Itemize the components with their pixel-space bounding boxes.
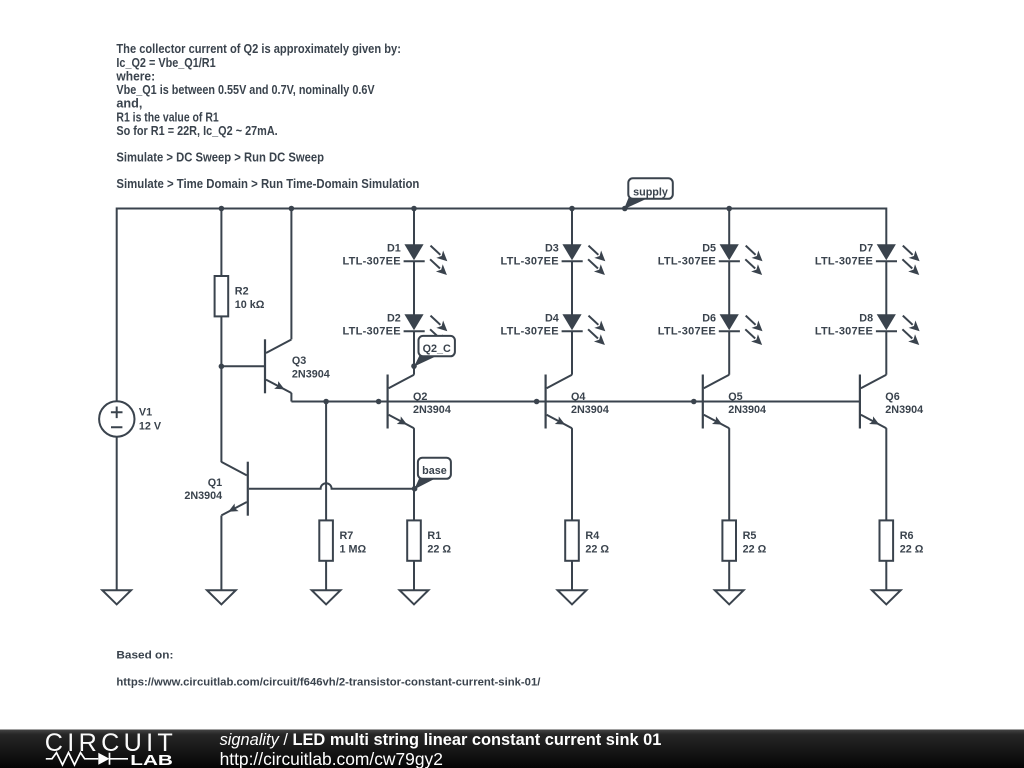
- svg-text:Based on:: Based on:: [116, 649, 173, 661]
- svg-text:2N3904: 2N3904: [413, 404, 451, 416]
- svg-text:D7: D7: [859, 243, 873, 255]
- svg-text:2N3904: 2N3904: [184, 490, 222, 502]
- svg-text:R5: R5: [743, 530, 757, 542]
- svg-text:22 Ω: 22 Ω: [427, 544, 451, 556]
- svg-text:2N3904: 2N3904: [571, 404, 609, 416]
- svg-text:22 Ω: 22 Ω: [585, 544, 609, 556]
- svg-text:D4: D4: [545, 313, 559, 325]
- svg-text:http://circuitlab.com/cw79gy2: http://circuitlab.com/cw79gy2: [220, 749, 443, 768]
- svg-text:LTL-307EE: LTL-307EE: [658, 256, 716, 268]
- svg-text:signality / LED multi string l: signality / LED multi string linear cons…: [220, 731, 662, 749]
- svg-text:Q2_C: Q2_C: [423, 343, 451, 355]
- svg-text:R6: R6: [900, 530, 914, 542]
- svg-text:base: base: [422, 465, 447, 477]
- svg-text:LTL-307EE: LTL-307EE: [343, 256, 401, 268]
- svg-text:Simulate > Time Domain > Run T: Simulate > Time Domain > Run Time-Domain…: [116, 176, 419, 191]
- svg-text:22 Ω: 22 Ω: [900, 544, 924, 556]
- svg-text:V1: V1: [139, 407, 152, 419]
- svg-text:2N3904: 2N3904: [292, 369, 330, 381]
- svg-text:Q5: Q5: [728, 391, 742, 403]
- svg-text:D1: D1: [387, 243, 401, 255]
- svg-text:LTL-307EE: LTL-307EE: [658, 326, 716, 338]
- svg-text:Vbe_Q1 is between 0.55V and 0.: Vbe_Q1 is between 0.55V and 0.7V, nomina…: [116, 82, 374, 97]
- svg-text:LTL-307EE: LTL-307EE: [815, 326, 873, 338]
- svg-text:Q1: Q1: [208, 477, 222, 489]
- svg-text:2N3904: 2N3904: [728, 404, 766, 416]
- svg-text:Q2: Q2: [413, 391, 427, 403]
- svg-text:https://www.circuitlab.com/cir: https://www.circuitlab.com/circuit/f646v…: [116, 676, 540, 688]
- svg-text:D6: D6: [702, 313, 716, 325]
- svg-text:R2: R2: [235, 286, 249, 298]
- svg-text:LTL-307EE: LTL-307EE: [815, 256, 873, 268]
- svg-text:Q6: Q6: [885, 391, 899, 403]
- svg-text:D2: D2: [387, 313, 401, 325]
- svg-text:So for R1 = 22R, Ic_Q2 ~ 27mA.: So for R1 = 22R, Ic_Q2 ~ 27mA.: [116, 123, 277, 138]
- svg-text:10 kΩ: 10 kΩ: [235, 299, 265, 311]
- svg-text:2N3904: 2N3904: [885, 404, 923, 416]
- svg-text:LTL-307EE: LTL-307EE: [501, 326, 559, 338]
- svg-text:LAB: LAB: [130, 752, 173, 768]
- svg-text:Q3: Q3: [292, 355, 306, 367]
- svg-text:12 V: 12 V: [139, 420, 162, 432]
- svg-text:LTL-307EE: LTL-307EE: [501, 256, 559, 268]
- svg-text:D3: D3: [545, 243, 559, 255]
- svg-text:Simulate > DC Sweep > Run DC S: Simulate > DC Sweep > Run DC Sweep: [116, 149, 324, 164]
- svg-text:supply: supply: [633, 186, 668, 198]
- svg-text:R7: R7: [340, 530, 354, 542]
- svg-text:D5: D5: [702, 243, 716, 255]
- svg-text:D8: D8: [859, 313, 873, 325]
- svg-text:R1: R1: [427, 530, 441, 542]
- svg-text:Q4: Q4: [571, 391, 585, 403]
- svg-text:22 Ω: 22 Ω: [743, 544, 767, 556]
- svg-text:1 MΩ: 1 MΩ: [340, 544, 367, 556]
- svg-text:LTL-307EE: LTL-307EE: [343, 326, 401, 338]
- svg-text:R4: R4: [585, 530, 599, 542]
